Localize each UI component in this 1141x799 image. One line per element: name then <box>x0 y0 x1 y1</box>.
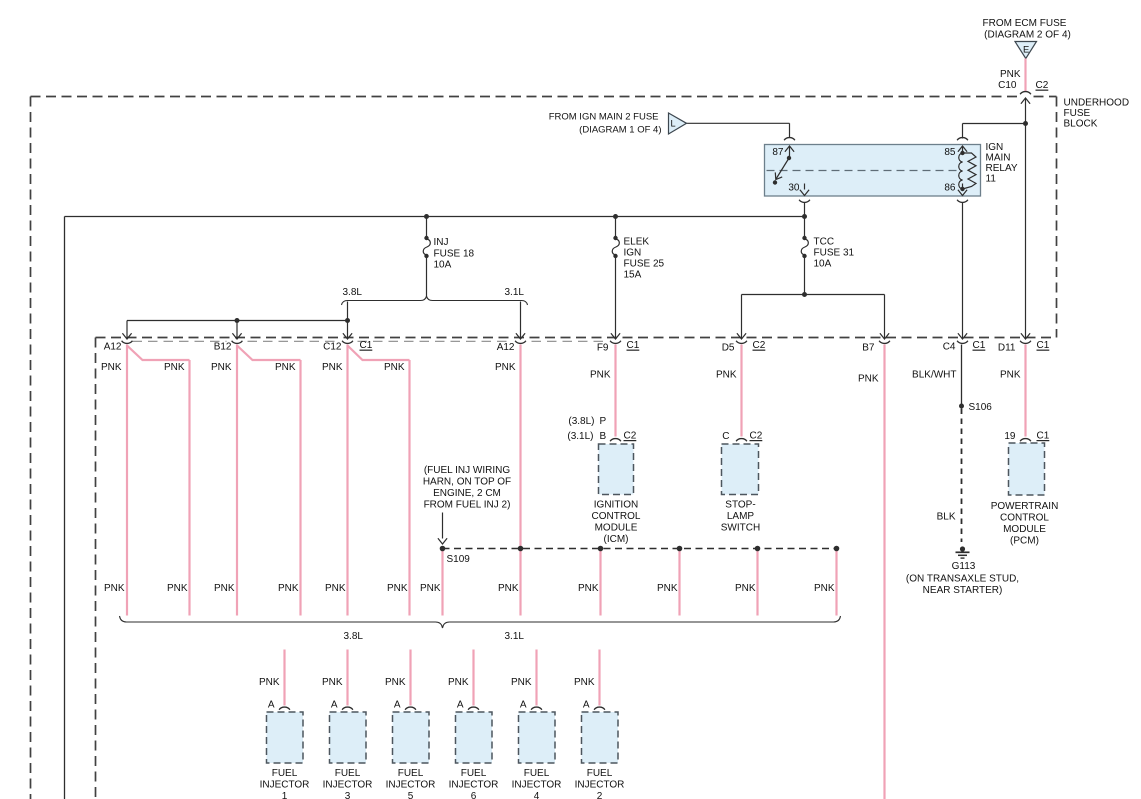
svg-text:INJECTOR: INJECTOR <box>449 780 499 791</box>
svg-text:(ICM): (ICM) <box>604 534 629 545</box>
svg-text:PNK: PNK <box>384 362 405 373</box>
svg-text:PNK: PNK <box>278 583 299 594</box>
svg-text:FROM FUEL INJ 2): FROM FUEL INJ 2) <box>424 500 511 511</box>
svg-text:BLK/WHT: BLK/WHT <box>912 370 956 381</box>
svg-text:INJECTOR: INJECTOR <box>512 780 562 791</box>
svg-text:30: 30 <box>788 183 800 194</box>
svg-text:FUSE 18: FUSE 18 <box>434 249 475 260</box>
svg-text:(DIAGRAM 1 OF 4): (DIAGRAM 1 OF 4) <box>579 125 661 136</box>
svg-text:C2: C2 <box>753 340 766 351</box>
svg-text:PNK: PNK <box>385 677 406 688</box>
svg-text:PNK: PNK <box>104 583 125 594</box>
svg-text:A: A <box>583 700 590 711</box>
svg-text:MAIN: MAIN <box>986 153 1011 164</box>
svg-text:FUEL: FUEL <box>587 768 613 779</box>
svg-text:UNDERHOOD: UNDERHOOD <box>1064 98 1130 109</box>
svg-text:D5: D5 <box>722 343 735 354</box>
svg-text:F9: F9 <box>597 343 609 354</box>
svg-text:(ON TRANSAXLE STUD,: (ON TRANSAXLE STUD, <box>906 574 1019 585</box>
svg-text:C2: C2 <box>1036 80 1049 91</box>
svg-text:NEAR STARTER): NEAR STARTER) <box>923 585 1003 596</box>
svg-text:L: L <box>671 119 676 129</box>
svg-text:INJECTOR: INJECTOR <box>260 780 310 791</box>
svg-text:4: 4 <box>534 791 540 799</box>
svg-text:C2: C2 <box>624 431 637 442</box>
svg-text:C1: C1 <box>973 340 986 351</box>
svg-text:B7: B7 <box>862 343 875 354</box>
svg-text:TCC: TCC <box>814 237 835 248</box>
svg-text:PNK: PNK <box>211 362 232 373</box>
svg-text:3.1L: 3.1L <box>505 631 525 642</box>
svg-text:PNK: PNK <box>657 583 678 594</box>
svg-text:PNK: PNK <box>322 677 343 688</box>
svg-text:FUEL: FUEL <box>524 768 550 779</box>
svg-text:PNK: PNK <box>259 677 280 688</box>
svg-text:C1: C1 <box>1037 431 1050 442</box>
svg-text:BLOCK: BLOCK <box>1064 119 1098 130</box>
svg-text:5: 5 <box>408 791 414 799</box>
svg-text:MODULE: MODULE <box>1003 524 1046 535</box>
svg-text:FUEL: FUEL <box>398 768 424 779</box>
svg-text:(PCM): (PCM) <box>1010 536 1039 547</box>
svg-text:PNK: PNK <box>511 677 532 688</box>
svg-text:D11: D11 <box>998 343 1016 354</box>
svg-text:FUEL: FUEL <box>335 768 361 779</box>
svg-text:C10: C10 <box>998 80 1017 91</box>
svg-text:19: 19 <box>1004 431 1016 442</box>
svg-text:C1: C1 <box>1037 340 1050 351</box>
svg-text:C4: C4 <box>943 342 956 353</box>
svg-text:3: 3 <box>345 791 351 799</box>
svg-text:PNK: PNK <box>590 370 611 381</box>
svg-text:(DIAGRAM 2 OF 4): (DIAGRAM 2 OF 4) <box>984 30 1071 41</box>
svg-text:PNK: PNK <box>101 362 122 373</box>
svg-text:RELAY: RELAY <box>986 163 1018 174</box>
svg-text:INJECTOR: INJECTOR <box>323 780 373 791</box>
svg-text:FUEL: FUEL <box>272 768 298 779</box>
svg-text:PNK: PNK <box>735 583 756 594</box>
svg-text:A12: A12 <box>497 342 515 353</box>
svg-text:PNK: PNK <box>214 583 235 594</box>
svg-text:PNK: PNK <box>814 583 835 594</box>
svg-text:C: C <box>722 431 729 442</box>
svg-text:POWERTRAIN: POWERTRAIN <box>991 501 1059 512</box>
svg-text:3.8L: 3.8L <box>344 631 364 642</box>
svg-text:PNK: PNK <box>387 583 408 594</box>
svg-text:PNK: PNK <box>1000 370 1021 381</box>
svg-text:A: A <box>331 700 338 711</box>
svg-text:E: E <box>1023 44 1029 55</box>
svg-text:FUSE: FUSE <box>1064 108 1091 119</box>
svg-text:FUEL: FUEL <box>461 768 487 779</box>
svg-text:PNK: PNK <box>448 677 469 688</box>
svg-text:PNK: PNK <box>275 362 296 373</box>
svg-text:PNK: PNK <box>1000 69 1021 80</box>
svg-text:11: 11 <box>986 174 997 185</box>
svg-text:INJ: INJ <box>434 237 449 248</box>
svg-text:FUSE 31: FUSE 31 <box>814 248 855 259</box>
svg-text:10A: 10A <box>814 259 832 270</box>
svg-text:MODULE: MODULE <box>595 523 638 534</box>
svg-text:S109: S109 <box>447 554 471 565</box>
svg-text:CONTROL: CONTROL <box>592 511 641 522</box>
svg-text:(3.1L): (3.1L) <box>567 431 593 442</box>
svg-text:A: A <box>268 700 275 711</box>
svg-text:PNK: PNK <box>578 583 599 594</box>
svg-text:PNK: PNK <box>574 677 595 688</box>
svg-text:PNK: PNK <box>495 362 516 373</box>
svg-text:STOP-: STOP- <box>725 500 755 511</box>
svg-text:A12: A12 <box>104 342 122 353</box>
svg-text:(FUEL INJ WIRING: (FUEL INJ WIRING <box>424 465 511 476</box>
svg-text:S106: S106 <box>969 402 993 413</box>
svg-text:A: A <box>394 700 401 711</box>
svg-text:IGN: IGN <box>986 142 1004 153</box>
svg-text:85: 85 <box>944 147 956 158</box>
svg-text:PNK: PNK <box>420 583 441 594</box>
svg-text:ELEK: ELEK <box>624 237 650 248</box>
svg-text:15A: 15A <box>624 270 642 281</box>
svg-text:C12: C12 <box>323 342 342 353</box>
svg-text:PNK: PNK <box>164 362 185 373</box>
svg-text:PNK: PNK <box>716 370 737 381</box>
svg-text:B: B <box>600 431 607 442</box>
svg-text:IGNITION: IGNITION <box>594 500 638 511</box>
svg-text:P: P <box>600 416 607 427</box>
svg-text:C1: C1 <box>360 340 373 351</box>
svg-text:PNK: PNK <box>325 583 346 594</box>
svg-text:10A: 10A <box>434 260 452 271</box>
svg-text:B12: B12 <box>214 342 232 353</box>
svg-text:INJECTOR: INJECTOR <box>575 780 625 791</box>
svg-text:G113: G113 <box>952 561 976 572</box>
svg-text:C1: C1 <box>627 340 640 351</box>
svg-text:3.1L: 3.1L <box>505 287 525 298</box>
svg-text:(3.8L): (3.8L) <box>568 416 594 427</box>
svg-text:6: 6 <box>471 791 477 799</box>
svg-text:PNK: PNK <box>322 362 343 373</box>
svg-text:FUSE 25: FUSE 25 <box>624 259 665 270</box>
svg-text:A: A <box>457 700 464 711</box>
svg-text:C2: C2 <box>750 431 763 442</box>
svg-text:HARN, ON TOP OF: HARN, ON TOP OF <box>423 477 511 488</box>
svg-text:PNK: PNK <box>858 374 879 385</box>
svg-text:2: 2 <box>597 791 603 799</box>
svg-text:CONTROL: CONTROL <box>1000 513 1049 524</box>
svg-text:SWITCH: SWITCH <box>721 523 760 534</box>
svg-text:A: A <box>520 700 527 711</box>
svg-text:LAMP: LAMP <box>727 511 755 522</box>
svg-text:PNK: PNK <box>167 583 188 594</box>
svg-text:INJECTOR: INJECTOR <box>386 780 436 791</box>
svg-text:FROM ECM FUSE: FROM ECM FUSE <box>983 18 1067 29</box>
svg-text:IGN: IGN <box>624 248 642 259</box>
svg-text:1: 1 <box>282 791 288 799</box>
svg-text:PNK: PNK <box>498 583 519 594</box>
svg-text:3.8L: 3.8L <box>343 287 363 298</box>
svg-text:86: 86 <box>944 183 956 194</box>
svg-text:87: 87 <box>772 147 784 158</box>
svg-text:FROM IGN MAIN 2 FUSE: FROM IGN MAIN 2 FUSE <box>549 112 659 123</box>
svg-text:BLK: BLK <box>937 512 956 523</box>
svg-text:ENGINE, 2 CM: ENGINE, 2 CM <box>433 488 501 499</box>
